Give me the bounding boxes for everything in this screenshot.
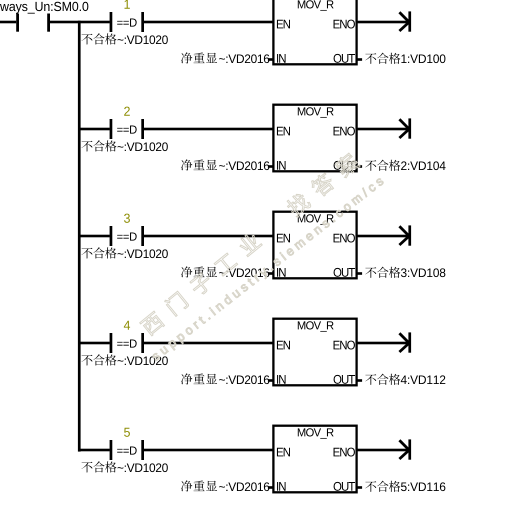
- wire ENO to open branch arrow rung 4: [357, 342, 409, 345]
- contact compare ==D rung 5: [110, 440, 144, 460]
- node constant operand 1 of compare contact: [124, 0, 129, 9]
- node operand2 label 不合格~:VD1020 rung 5: [81, 461, 167, 472]
- node input operand 净重显~:VD2016 rung 4: [181, 373, 269, 384]
- node input operand 净重显~:VD2016 rung 2: [181, 159, 269, 170]
- node constant operand 3 of compare contact: [124, 214, 130, 223]
- wire vertical branch rail: [78, 21, 81, 452]
- pin OUT tick rung 2: [357, 165, 363, 168]
- node constant operand 2 of compare contact: [124, 107, 130, 116]
- wire compare contact to MOV_R EN rung 5: [144, 449, 273, 452]
- node operand2 label 不合格~:VD1020 rung 4: [81, 354, 167, 365]
- node constant operand 4 of compare contact: [124, 321, 130, 330]
- wire compare contact to MOV_R EN rung 1: [144, 21, 273, 24]
- arrow open rung end rung 3: [399, 225, 411, 245]
- contact compare ==D rung 3: [110, 226, 144, 246]
- wire ENO to open branch arrow rung 2: [357, 128, 409, 131]
- contact compare ==D rung 4: [110, 333, 144, 353]
- arrow open rung end rung 2: [399, 118, 411, 138]
- node constant operand 5 of compare contact: [124, 428, 130, 437]
- node input operand 净重显~:VD2016 rung 5: [181, 480, 269, 491]
- pin IN tick rung 1: [268, 58, 274, 61]
- pin IN tick rung 3: [268, 272, 274, 275]
- op block MOV_R box rung 4: [273, 319, 356, 386]
- wire branch rail to compare contact rung 4: [79, 342, 110, 345]
- contact compare ==D rung 2: [110, 119, 144, 139]
- wire compare contact to MOV_R EN rung 2: [144, 128, 273, 131]
- op block MOV_R box rung 1: [273, 0, 356, 64]
- op block MOV_R box rung 3: [273, 212, 356, 279]
- wire left rail into contact SM0.0: [0, 21, 16, 24]
- pin OUT tick rung 5: [357, 486, 363, 489]
- node output operand 不合格5:VD116 rung 5: [365, 481, 445, 492]
- pin IN tick rung 5: [268, 486, 274, 489]
- op block MOV_R box rung 5: [273, 426, 356, 493]
- pin OUT tick rung 1: [357, 58, 363, 61]
- wire compare contact to MOV_R EN rung 4: [144, 342, 273, 345]
- arrow open rung end rung 5: [399, 439, 411, 459]
- node output operand 不合格2:VD104 rung 2: [365, 160, 445, 171]
- watermark url support.industry.siemens.com/cs: [150, 176, 385, 363]
- watermark text 西门子工业找答案: [139, 151, 361, 337]
- node input operand 净重显~:VD2016 rung 3: [181, 266, 269, 277]
- wire compare contact to MOV_R EN rung 3: [144, 235, 273, 238]
- wire contact SM0.0 to rung 1 compare contact: [50, 21, 110, 24]
- op block MOV_R box rung 2: [273, 105, 356, 172]
- node output operand 不合格4:VD112 rung 4: [365, 374, 445, 385]
- contact Always_On:SM0.0: [16, 14, 50, 32]
- node output operand 不合格1:VD100 rung 1: [365, 53, 445, 64]
- pin IN tick rung 4: [268, 379, 274, 382]
- contact compare ==D rung 1: [110, 12, 144, 32]
- wire ENO to open branch arrow rung 3: [357, 235, 409, 238]
- pin OUT tick rung 3: [357, 272, 363, 275]
- node output operand 不合格3:VD108 rung 3: [365, 267, 445, 278]
- node symbol label Always_On:SM0.0: [0, 2, 88, 14]
- node input operand 净重显~:VD2016 rung 1: [181, 52, 269, 63]
- node operand2 label 不合格~:VD1020 rung 3: [81, 247, 167, 258]
- pin IN tick rung 2: [268, 165, 274, 168]
- node operand2 label 不合格~:VD1020 rung 2: [81, 140, 167, 151]
- wire branch rail to compare contact rung 5: [79, 449, 110, 452]
- arrow open rung end rung 4: [399, 332, 411, 352]
- arrow open rung end rung 1: [399, 11, 411, 31]
- wire ENO to open branch arrow rung 1: [357, 21, 409, 24]
- pin OUT tick rung 4: [357, 379, 363, 382]
- wire branch rail to compare contact rung 3: [79, 235, 110, 238]
- wire ENO to open branch arrow rung 5: [357, 449, 409, 452]
- wire branch rail to compare contact rung 2: [79, 128, 110, 131]
- node operand2 label 不合格~:VD1020 rung 1: [81, 33, 167, 44]
